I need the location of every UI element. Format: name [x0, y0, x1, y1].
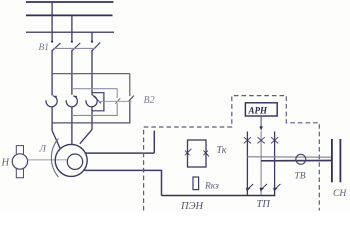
contactor Tk box: [188, 140, 207, 167]
resistor Rkz box: [193, 177, 199, 190]
frame jog around contact pole 3: [92, 93, 104, 111]
switch B2 linkage line: [99, 100, 132, 102]
shaft line pump to motor: [28, 159, 68, 161]
wire phase B lower: [71, 107, 73, 145]
svg-text:В2: В2: [144, 95, 155, 106]
wire phase B mid: [71, 50, 73, 95]
switch B2 pole A upper wire: [116, 89, 118, 99]
switch B2 pole B blade: [129, 96, 134, 102]
transformer TP tap 2: [258, 131, 265, 196]
motor-generator M outer circle: [55, 144, 87, 176]
svg-text:Rкз: Rкз: [204, 182, 219, 192]
motor-generator inner circle: [67, 154, 82, 169]
switch B2 pole A blade: [115, 98, 120, 103]
svg-text:Л: Л: [39, 144, 47, 154]
wire phase C drop from bus L3: [91, 32, 93, 43]
svg-text:ТВ: ТВ: [295, 172, 306, 182]
svg-text:ПЭН: ПЭН: [180, 201, 204, 212]
generator output wire upper: [85, 152, 154, 154]
motor lead A diagonal: [52, 131, 60, 149]
contactor main contact pole 3 (hook): [86, 95, 101, 107]
svg-text:ТП: ТП: [257, 199, 272, 210]
transformer TV circle: [296, 154, 306, 164]
regulator ARN box: [245, 103, 277, 116]
pump H circle: [12, 146, 27, 178]
svg-text:Н: Н: [1, 157, 11, 168]
output line A to TV: [247, 156, 332, 158]
bus L2: [26, 14, 113, 16]
switch B2 bypass wire (phase B tap): [72, 88, 117, 90]
switch B1 (3-pole knife switch): [52, 43, 100, 51]
wire phase B drop from bus L2: [71, 15, 73, 42]
svg-text:СН: СН: [333, 189, 347, 199]
switch B2 pole B upper wire: [129, 74, 131, 97]
tap selector arrow 3: [273, 184, 280, 192]
bottom rail wire: [162, 195, 276, 197]
capacitor plate 1: [331, 139, 333, 182]
bus L1: [26, 1, 114, 3]
wire phase C mid: [91, 50, 93, 95]
svg-text:В1: В1: [39, 43, 50, 53]
transformer TP tap 3: [271, 132, 278, 196]
dashed enclosure outline: [144, 96, 320, 211]
wire phase A drop from bus L1: [51, 2, 53, 43]
wire phase A lower: [51, 107, 53, 131]
contactor main contact pole 1 (hook): [46, 96, 57, 107]
switch B2 pole B lower wire: [52, 101, 130, 123]
control line from ARN with arrow: [259, 116, 263, 130]
transformer TP tap 1: [244, 132, 251, 196]
bus L3: [26, 31, 114, 33]
wire phase A mid: [51, 50, 53, 96]
wire phase C lower: [91, 107, 93, 130]
Tk left terminal x: [185, 149, 191, 155]
generator output wire lower: [84, 170, 162, 195]
tap selector arrow 1: [246, 184, 253, 192]
capacitor plate 2: [339, 139, 341, 182]
switch B2 bypass wire top (phase A tap): [52, 73, 130, 75]
riser of upper output at box edge: [153, 131, 155, 153]
svg-text:Тк: Тк: [217, 145, 227, 156]
output line B to TV: [261, 160, 332, 162]
svg-text:АРН: АРН: [248, 105, 269, 115]
coupling arc L: [51, 139, 58, 178]
Tk right terminal x: [203, 151, 209, 157]
motor lead C diagonal: [80, 130, 92, 144]
tap selector arrow 2: [260, 184, 267, 192]
contactor main contact pole 2 (hook): [66, 96, 77, 107]
switch B2 pole A lower wire: [72, 103, 117, 115]
